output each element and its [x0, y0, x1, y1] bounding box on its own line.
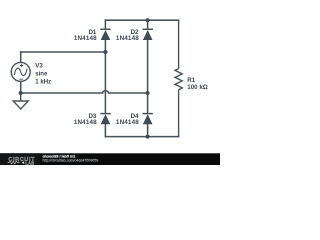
node: mid-left / D1-D3 junction	[103, 50, 107, 54]
svg-text:1N4148: 1N4148	[74, 119, 97, 126]
wire source bottom lead	[20, 81, 22, 93]
node: source bottom / ground junction	[19, 91, 23, 95]
svg-text:1N4148: 1N4148	[116, 35, 139, 42]
svg-text:100 kΩ: 100 kΩ	[187, 84, 207, 91]
wire D1 top lead	[104, 20, 106, 29]
wire D3 bottom lead	[104, 124, 106, 137]
wire mid-left (source top to bridge)	[21, 51, 106, 53]
watermark logo	[0, 153, 40, 165]
ground	[13, 93, 28, 109]
wire D1-D3 vertical branch	[104, 40, 106, 113]
node: bottom bus / D4 junction	[146, 135, 150, 139]
label D2	[116, 29, 139, 42]
svg-text:V3: V3	[35, 62, 43, 69]
diode D1	[100, 29, 110, 40]
label R1	[187, 77, 207, 91]
node: mid-right / D2-D4 junction	[146, 91, 150, 95]
watermark text	[43, 154, 99, 162]
label D1	[74, 29, 97, 42]
svg-text:1 kHz: 1 kHz	[35, 78, 51, 85]
node: top bus / D2 junction	[146, 18, 150, 22]
svg-text:sine: sine	[35, 72, 48, 78]
diode D2	[143, 29, 153, 40]
svg-text:1N4148: 1N4148	[74, 35, 97, 42]
diode D3	[100, 114, 110, 125]
svg-text:http://circuitlab.com/c4dd4750: http://circuitlab.com/c4dd47509659	[43, 158, 99, 162]
wire D2 top lead	[147, 20, 149, 29]
wire D4 bottom lead	[147, 124, 149, 137]
diode D4	[143, 114, 153, 125]
label V3	[35, 62, 51, 85]
wire top bus	[105, 19, 178, 21]
svg-text:LAB: LAB	[25, 160, 34, 165]
svg-text:1N4148: 1N4148	[116, 119, 139, 126]
wire source top lead	[20, 52, 22, 62]
watermark bar	[0, 153, 220, 165]
voltage source V3	[11, 62, 30, 81]
wire mid-right with hop over left branch	[21, 91, 148, 93]
resistor R1	[175, 20, 182, 136]
wire bottom bus	[105, 136, 178, 138]
label D4	[116, 113, 139, 126]
wire D2-D4 vertical branch	[147, 40, 149, 113]
label D3	[74, 113, 97, 126]
